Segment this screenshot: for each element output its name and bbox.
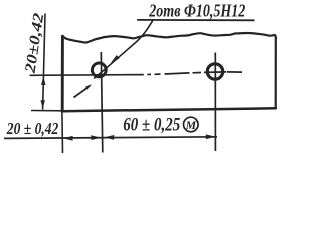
- hole 1 vertical centerline / extension line: [101, 52, 103, 153]
- left edge extension line below part: [61, 111, 64, 153]
- part outline: right edge: [275, 35, 276, 108]
- hole 2 (circle): [207, 64, 222, 79]
- hole 2 vertical centerline / extension line: [214, 53, 216, 152]
- vertical dimension line 20±0,42: [43, 14, 45, 110]
- svg-text:20 ± 0,42: 20 ± 0,42: [6, 119, 58, 138]
- centerline solid through hole 2: [193, 72, 202, 74]
- bottom edge extension line to the left: [31, 110, 64, 112]
- svg-text:60 ± 0,25: 60 ± 0,25: [123, 114, 180, 135]
- hole 1 (circle): [92, 63, 106, 77]
- arrowhead left at hole1 line (60 dim): [104, 135, 114, 140]
- centerline solid through hole 2b: [204, 71, 226, 74]
- arrowhead right at hole1 line (20 dim): [91, 135, 101, 140]
- centerline dot: [147, 73, 151, 75]
- centerline dash: [165, 73, 190, 74]
- svg-text:2отв Ф10,5Н12: 2отв Ф10,5Н12: [149, 1, 246, 21]
- arrowhead up at centerline: [41, 76, 45, 85]
- svg-text:М: М: [185, 118, 197, 132]
- centerline dash right of hole 2: [227, 71, 242, 73]
- part outline: bottom edge: [62, 108, 276, 111]
- arrowhead left at part edge (20 dim): [63, 136, 73, 141]
- arrowhead right at hole2 line (60 dim): [206, 134, 216, 139]
- small arrow pointing at hole 1 from lower left: [74, 86, 91, 98]
- leader line from callout to hole 1: [94, 19, 154, 78]
- leader arrowhead at hole 1: [111, 55, 120, 63]
- modifier symbol circled M: [184, 117, 199, 132]
- bottom dimension line: [4, 137, 217, 139]
- arrowhead down at bottom edge: [41, 100, 45, 109]
- callout underline: [137, 19, 254, 21]
- part outline: left edge: [61, 36, 64, 111]
- horizontal centerline (solid through hole 1): [30, 74, 144, 77]
- small arrowhead: [85, 84, 92, 90]
- part outline: wavy top edge: [62, 33, 274, 43]
- centerline dash: [155, 73, 161, 75]
